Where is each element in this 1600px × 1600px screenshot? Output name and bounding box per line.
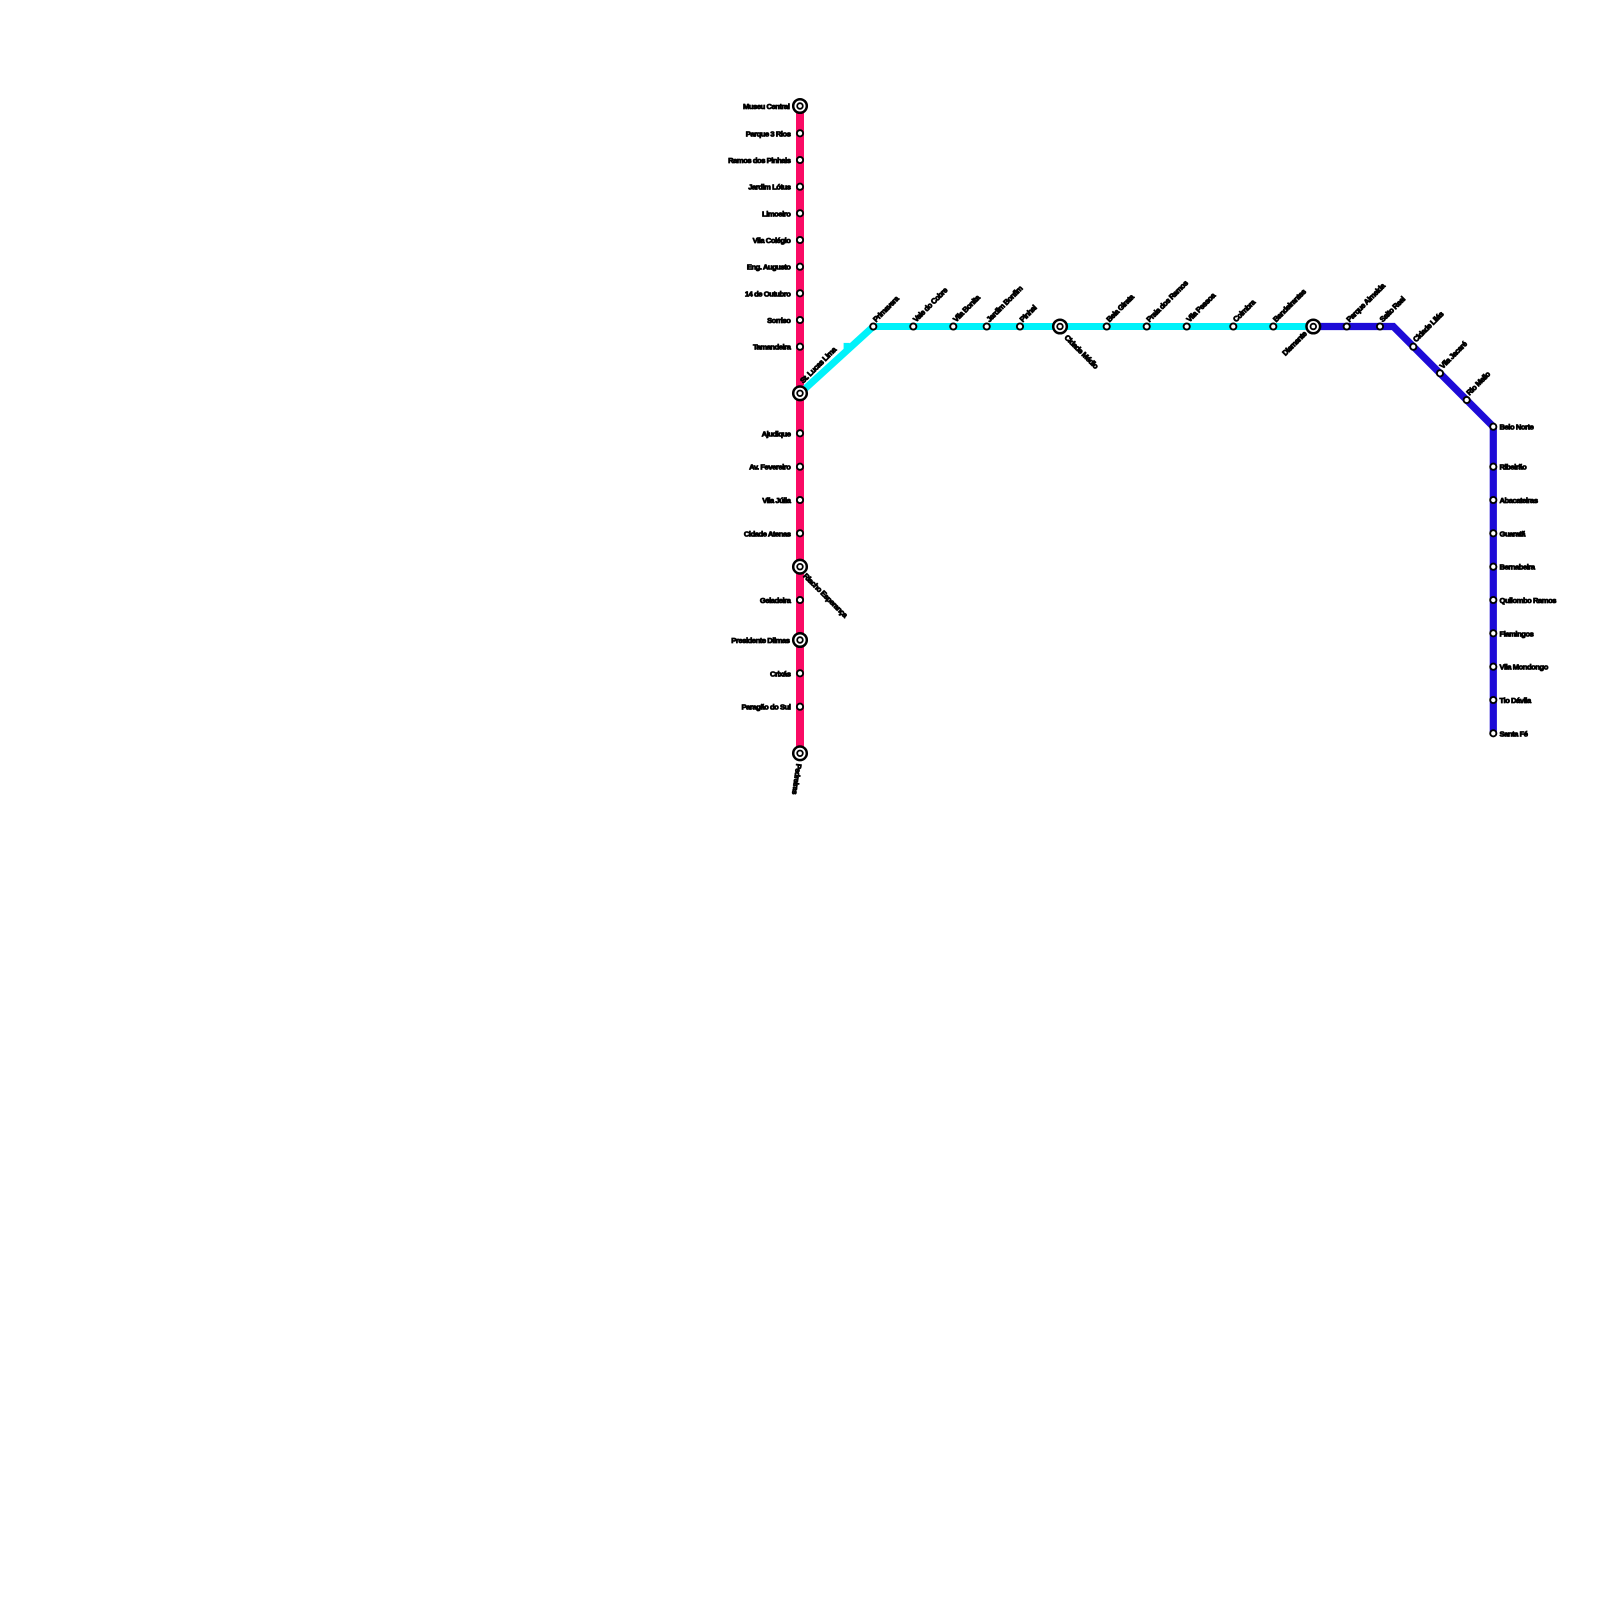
cyan jog stub <box>844 343 850 350</box>
svg-text:Cidade Atenas: Cidade Atenas <box>744 529 791 538</box>
svg-text:Tio Dávila: Tio Dávila <box>1500 696 1532 705</box>
blue line <box>1313 327 1493 734</box>
svg-text:Av. Fevereiro: Av. Fevereiro <box>749 463 791 472</box>
station Vila Colégio <box>797 237 803 243</box>
station Ajudique <box>797 430 803 436</box>
station Tamandeira <box>797 344 803 350</box>
labels: interchange rotated down-right <box>790 329 1308 795</box>
interchange Museu Central <box>793 99 807 113</box>
station Primavera <box>870 323 876 329</box>
svg-text:14 de Outubro: 14 de Outubro <box>745 289 791 298</box>
svg-text:Parque 3 Rios: Parque 3 Rios <box>746 129 791 138</box>
station Belo Norte <box>1490 424 1496 430</box>
station Crixás <box>797 670 803 676</box>
station Vila Bonita <box>950 323 956 329</box>
interchange St. Lucas Lima <box>793 387 807 401</box>
svg-text:Eng. Augusto: Eng. Augusto <box>747 263 791 272</box>
station Bela Girata <box>1104 323 1110 329</box>
svg-text:Flamingos: Flamingos <box>1500 629 1534 638</box>
station Praia dos Ramos <box>1144 323 1150 329</box>
station Parque 3 Rios <box>797 130 803 136</box>
station Guaratã <box>1490 530 1496 536</box>
station Vila Jacaré <box>1437 370 1443 376</box>
station Vila Mondongo <box>1490 664 1496 670</box>
svg-text:Sorriso: Sorriso <box>767 316 791 325</box>
interchange Presidente Dilmas <box>793 633 807 647</box>
svg-text:Guaratã: Guaratã <box>1500 529 1527 538</box>
svg-text:Jardim Lótus: Jardim Lótus <box>748 183 791 192</box>
svg-text:Vila Colégio: Vila Colégio <box>753 236 792 245</box>
station Santa Fé <box>1490 730 1496 736</box>
svg-text:Vila Júlia: Vila Júlia <box>762 496 792 505</box>
station Vale do Cobre <box>910 323 916 329</box>
station Pinhal <box>1017 323 1023 329</box>
svg-text:Paragão do Sul: Paragão do Sul <box>742 703 791 712</box>
stations: cyan regular <box>870 323 1276 329</box>
station Coimbra <box>1230 323 1236 329</box>
station Sorriso <box>797 317 803 323</box>
interchange Cidade Médio <box>1053 320 1067 334</box>
stations: pink regular <box>797 130 803 710</box>
labels: pink line (right aligned) <box>728 102 792 712</box>
svg-text:Santa Fé: Santa Fé <box>1500 729 1528 738</box>
svg-text:Geladeira: Geladeira <box>760 596 792 605</box>
station Limoeiro <box>797 210 803 216</box>
station Paragão do Sul <box>797 704 803 710</box>
station Bandeirantes <box>1270 323 1276 329</box>
svg-text:Limoeiro: Limoeiro <box>762 209 791 218</box>
interchanges <box>793 99 1320 760</box>
station Vila Júlia <box>797 497 803 503</box>
labels: blue vertical (left aligned) <box>1500 423 1557 739</box>
svg-text:Museu Central: Museu Central <box>743 102 790 111</box>
svg-text:Presidente Dilmas: Presidente Dilmas <box>731 636 789 645</box>
station Abacateiras <box>1490 497 1496 503</box>
station Jardim Bonfim <box>984 323 990 329</box>
pink line <box>796 106 804 753</box>
station Parque Almeida <box>1344 323 1350 329</box>
svg-text:Quilombo Ramos: Quilombo Ramos <box>1500 596 1557 605</box>
interchange Riacho Esperança <box>793 560 807 574</box>
svg-text:Crixás: Crixás <box>770 669 791 678</box>
station Quilombo Ramos <box>1490 597 1496 603</box>
station Ramos dos Pinhais <box>797 157 803 163</box>
svg-text:Bernabeira: Bernabeira <box>1500 563 1536 572</box>
svg-text:Abacateiras: Abacateiras <box>1500 496 1538 505</box>
station Ribeirão <box>1490 464 1496 470</box>
station Eng. Augusto <box>797 264 803 270</box>
cyan line <box>800 327 1313 394</box>
stations: blue regular <box>1344 323 1497 736</box>
station Cidade Atenas <box>797 530 803 536</box>
svg-text:Ajudique: Ajudique <box>762 429 791 438</box>
station Bernabeira <box>1490 564 1496 570</box>
interchange Diamante <box>1307 320 1321 334</box>
svg-text:Vila Mondongo: Vila Mondongo <box>1500 663 1549 672</box>
station Flamingos <box>1490 630 1496 636</box>
station Cidade Lilás <box>1410 344 1416 350</box>
station Salto Real <box>1377 323 1383 329</box>
svg-text:Ribeirão: Ribeirão <box>1500 463 1528 472</box>
station 14 de Outubro <box>797 290 803 296</box>
labels: rotated -45 up-right (cyan + blue diagonal) <box>798 279 1492 398</box>
interchange Pedreiras <box>793 747 807 761</box>
svg-text:Ramos dos Pinhais: Ramos dos Pinhais <box>728 156 791 165</box>
svg-text:Belo Norte: Belo Norte <box>1500 423 1534 432</box>
station Av. Fevereiro <box>797 464 803 470</box>
station Geladeira <box>797 597 803 603</box>
svg-text:Tamandeira: Tamandeira <box>753 343 792 352</box>
station Jardim Lótus <box>797 184 803 190</box>
station Rio Mello <box>1464 397 1470 403</box>
station Vila Pessoa <box>1184 323 1190 329</box>
station Tio Dávila <box>1490 697 1496 703</box>
